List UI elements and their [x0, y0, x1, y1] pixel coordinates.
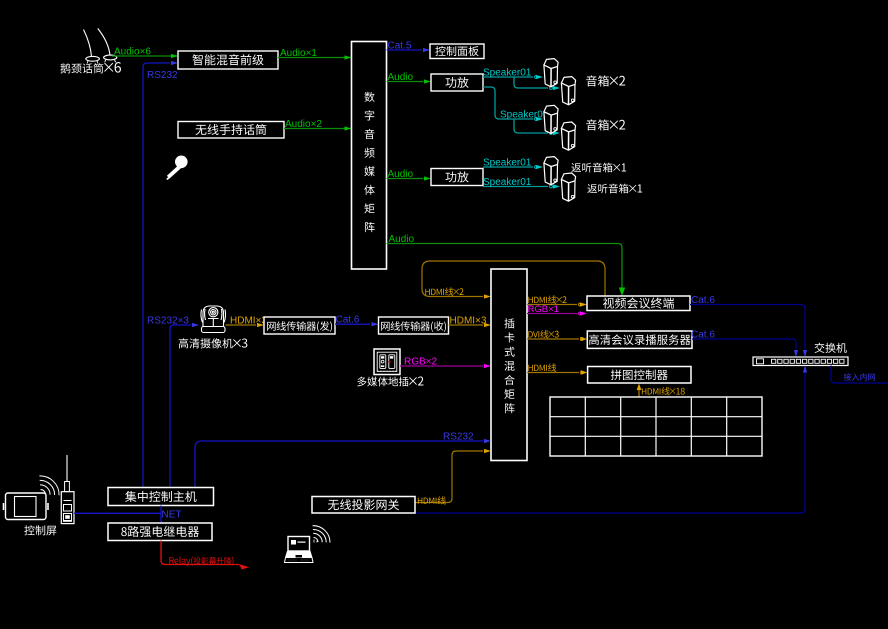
- wire Cat.6 recorder->switch (blue): [692, 339, 796, 349]
- wire Audio×6 (green): [112, 55, 177, 57]
- wifi arcs of laptop: [313, 526, 330, 543]
- cat5 transmitter (send) box 网线传输器(发): [264, 317, 335, 334]
- card-type hybrid matrix box 插卡式混合矩阵: [491, 269, 527, 461]
- wire Audio to amp1 (green): [387, 81, 424, 83]
- wire HDMI线×18 stitcher->wall (yellow): [638, 389, 640, 397]
- speaker icon 1: [544, 65, 558, 87]
- laptop icon: [285, 537, 314, 563]
- wire Cat.5 (blue): [387, 49, 423, 51]
- svg-text:Audio×2: Audio×2: [285, 119, 322, 130]
- svg-text:Cat.6: Cat.6: [336, 315, 360, 326]
- touch control screen icon 控制屏: [4, 493, 49, 520]
- label HDMI线 (yellow): [418, 496, 446, 504]
- digital audio media matrix box 数字音频媒体矩阵: [352, 42, 387, 270]
- wireless projection gateway box 无线投影网关: [312, 497, 415, 514]
- label 高清摄像机×3: [179, 338, 248, 348]
- wire Audio to video-conference terminal (green): [387, 244, 623, 289]
- label 交换机: [815, 343, 847, 353]
- speaker icon 5 (monitor): [544, 163, 558, 185]
- wire Cat.6 between transmitters (blue): [335, 323, 370, 325]
- svg-text:Audio: Audio: [388, 72, 414, 83]
- svg-text:HDMI×3: HDMI×3: [450, 316, 487, 327]
- wire HDMI线×2 loop terminal->matrix (yellow): [422, 261, 605, 297]
- wire RS232 to mixer (blue): [143, 63, 170, 488]
- speaker icon 3: [544, 112, 558, 134]
- multimedia floor socket icon 多媒体地插: [374, 349, 400, 375]
- svg-text:Speaker01: Speaker01: [483, 68, 532, 79]
- video wall grid 6x3: [550, 397, 762, 456]
- svg-text:NET: NET: [162, 510, 182, 521]
- handheld microphone icon: [166, 156, 187, 181]
- wifi arcs of control screen: [39, 476, 59, 495]
- control panel box 控制面板: [430, 44, 484, 59]
- wire AP->NET (blue): [74, 512, 161, 514]
- svg-text:Speaker01: Speaker01: [500, 110, 549, 121]
- power amplifier box 功放 #1: [431, 74, 483, 91]
- wire gateway->switch network loop (blue): [415, 372, 805, 513]
- speaker icon 6 (monitor): [561, 179, 575, 201]
- speaker icon 4: [561, 128, 575, 150]
- wire Speaker01 pair2-b branch (cyan): [514, 119, 548, 133]
- gooseneck microphone icon 1: [84, 30, 100, 64]
- wire Audio to amp2 (green): [387, 178, 424, 180]
- wireless handheld mic box 无线手持话筒: [178, 122, 284, 139]
- wire HDMI线 gateway->matrix (yellow): [415, 451, 483, 503]
- label 音箱×2 #2: [586, 119, 625, 130]
- svg-text:Audio×6: Audio×6: [114, 47, 151, 58]
- svg-text:RGB×1: RGB×1: [528, 304, 559, 315]
- power amplifier box 功放 #2: [431, 169, 483, 186]
- video wall controller box 拼图控制器: [588, 367, 691, 384]
- wire Audio×2 (green): [284, 128, 351, 130]
- wire RS232 host->matrix (blue): [195, 441, 483, 488]
- cat5 transmitter (receive) box 网线传输器(收): [379, 317, 449, 334]
- wire Speaker01 pair1-b branch (cyan): [514, 77, 548, 88]
- label 返听音箱×1 #1: [571, 163, 626, 173]
- label 多媒体地插×2: [357, 377, 423, 387]
- svg-text:Speaker01: Speaker01: [483, 177, 532, 188]
- label 返听音箱×1 #2: [587, 184, 642, 194]
- svg-text:HDMI×3: HDMI×3: [230, 316, 267, 327]
- wire Cat.6 terminal->switch (blue): [690, 305, 805, 350]
- wire RGB×2 socket->matrix (magenta): [400, 365, 483, 367]
- svg-text:RS232: RS232: [147, 70, 178, 81]
- svg-text:Audio: Audio: [388, 169, 414, 180]
- svg-text:Cat.6: Cat.6: [691, 295, 715, 306]
- wireless AP / antenna unit icon: [61, 455, 74, 524]
- svg-text:RS232×3: RS232×3: [147, 316, 189, 327]
- central control host box 集中控制主机: [108, 488, 214, 506]
- wire HDMI×3 camera->transmitter (yellow): [226, 324, 257, 326]
- wire RS232×3 to camera (blue): [170, 325, 191, 488]
- speaker icon 2: [561, 83, 575, 105]
- svg-text:Audio×1: Audio×1: [280, 48, 317, 59]
- wire Speaker01 monitor-b (cyan): [483, 186, 548, 188]
- svg-text:Audio: Audio: [389, 234, 415, 245]
- video conference terminal box 视频会议终端: [587, 296, 690, 311]
- svg-text:Cat.6: Cat.6: [691, 330, 715, 341]
- wire Speaker01 pair2 (cyan): [483, 87, 533, 119]
- label 鹅颈话筒×6: [60, 62, 121, 73]
- svg-text:Speaker01: Speaker01: [483, 158, 532, 169]
- 8-way power relay box 8路强电继电器: [108, 523, 212, 541]
- HD recording server box 高清会议录播服务器: [587, 331, 692, 348]
- svg-text:Cat.5: Cat.5: [388, 41, 412, 52]
- wire NET (blue): [160, 506, 162, 524]
- svg-text:RS232: RS232: [443, 432, 474, 443]
- label 音箱×2 #1: [586, 75, 625, 86]
- wire Speaker01 pair1-a (cyan): [483, 76, 533, 78]
- wire HDMI线 matrix->stitcher (yellow): [527, 372, 579, 374]
- wire switch->intranet 接入内网 (blue): [831, 366, 888, 384]
- label 控制屏: [24, 525, 56, 535]
- wire Relay(投影幕升降) (red): [161, 541, 238, 565]
- wire DVI线×3 matrix->recorder (yellow): [527, 338, 579, 340]
- svg-text:RGB×2: RGB×2: [404, 357, 438, 368]
- wire Speaker01 monitor-a (cyan): [483, 166, 533, 168]
- wire Audio×1 (green): [278, 57, 351, 59]
- ethernet switch icon 交换机: [753, 357, 848, 366]
- HD PTZ camera icon 高清摄像机: [201, 306, 226, 333]
- gooseneck microphone icon 2: [98, 29, 117, 63]
- mixer preamp box 智能混音前级: [178, 51, 278, 69]
- wire HDMI线×2 matrix->terminal (yellow): [527, 304, 577, 306]
- wire RGB×1 matrix->terminal (magenta): [527, 313, 577, 315]
- wire HDMI×3 receiver->matrix (yellow): [449, 324, 484, 326]
